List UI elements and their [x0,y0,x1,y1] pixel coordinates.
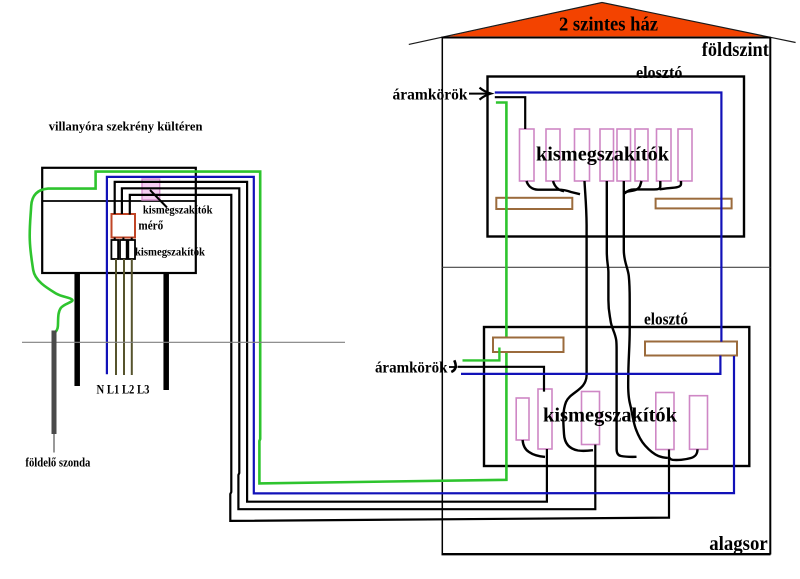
basement blue feeder to right busbar [461,356,720,374]
svg-text:kismegszakítók: kismegszakítók [536,144,670,166]
ground floor breaker 5 [617,129,631,181]
svg-text:áramkörök: áramkörök [375,360,448,377]
basement hook from breaker 5 [669,449,697,460]
ground floor hook from breaker 1 [527,181,581,194]
house top wall [442,37,771,39]
circuit line B gf breaker4 to basement [607,181,637,457]
svg-text:alagsor: alagsor [709,533,768,555]
basement breaker 5 [690,396,708,450]
cabinet shelf line [42,200,196,202]
floor divider line [442,266,770,268]
ground floor breaker 8 [678,129,692,181]
wire L2 olive under meter [123,259,125,375]
svg-text:2 szintes ház: 2 szintes ház [559,14,658,36]
ground floor breaker 3 [575,129,590,181]
grounding probe [52,331,57,435]
circuit line C gf breaker5 to basement [624,181,668,458]
roof outline left slope [409,3,602,45]
wire black ground floor breaker feed [495,97,525,129]
wire L2 cabinet-to-basement black bundle 2 [122,188,595,509]
basement breaker 4 [656,393,674,450]
svg-text:földelő szonda: földelő szonda [25,456,91,470]
svg-text:mérő: mérő [138,219,163,233]
ground surface line [22,341,345,343]
ground floor arrow [469,93,487,95]
svg-text:kismegszakítók: kismegszakítók [135,247,206,259]
meter output stubs [115,238,132,241]
ground floor hook from breaker 8 [660,181,682,189]
svg-text:kismegszakítók: kismegszakítók [543,405,678,427]
basement right busbar [645,342,737,356]
cabinet pink breaker block [142,179,160,200]
pointer line to pink block [150,190,167,208]
ground floor breaker 6 [635,129,648,181]
basement panel (elosztó) box [484,327,749,466]
cabinet left leg [74,273,80,386]
house right wall [769,38,771,555]
basement hook from breaker 1 [523,440,545,457]
circuit line A gf breaker3 to basement [563,181,593,451]
cabinet small breaker 1 [111,240,118,259]
svg-text:elosztó: elosztó [636,63,683,82]
svg-text:áramkörök: áramkörök [393,87,468,104]
cabinet small breaker 2 [120,240,127,259]
ground floor hook from breaker 7 [625,181,661,194]
meter cabinet box [42,168,196,273]
house bottom wall [442,553,771,555]
svg-text:kismegszakítók: kismegszakítók [143,205,213,217]
svg-text:földszint: földszint [702,39,769,61]
grounding probe tip [53,434,55,453]
ground floor right busbar [656,199,732,209]
basement arrow [449,366,457,368]
basement breaker 1 [516,398,529,440]
wire L3 olive under meter [131,259,133,375]
svg-text:elosztó: elosztó [644,310,688,329]
meter (mérő) box [112,214,136,238]
svg-text:villanyóra szekrény kültéren: villanyóra szekrény kültéren [49,120,203,134]
basement breaker 3 [582,392,600,445]
wire blue ground floor feed [495,93,722,342]
basement black feeder to breaker 2 [458,367,545,392]
wire PE green meter-to-panels [30,103,507,484]
basement green stub to busbar [463,348,500,361]
wire L1 cabinet-to-basement black bundle 1 [115,182,547,502]
ground floor hook from breaker 2 [553,181,564,191]
ground floor panel (elosztó) box [488,77,745,237]
svg-text:N L1 L2 L3: N L1 L2 L3 [97,383,150,397]
roof outline right slope [602,3,796,43]
cabinet right leg [163,273,169,390]
ground floor breaker 1 [520,129,535,181]
basement breaker 2 [538,389,552,449]
cabinet small breaker 3 [128,240,135,259]
house left wall [441,38,443,555]
wire L1 olive under meter [115,259,117,375]
basement left busbar [493,338,564,353]
ground floor breaker 4 [600,129,614,181]
wire N blue cabinet-to-basement [107,177,734,494]
wire L3 cabinet-to-basement black bundle 3 [130,195,669,521]
ground floor breaker 7 [657,129,672,181]
ground floor hook from breaker 6 [624,181,641,193]
roof orange triangle [448,3,767,36]
ground floor left busbar [496,198,572,209]
ground floor breaker 2 [546,129,560,181]
